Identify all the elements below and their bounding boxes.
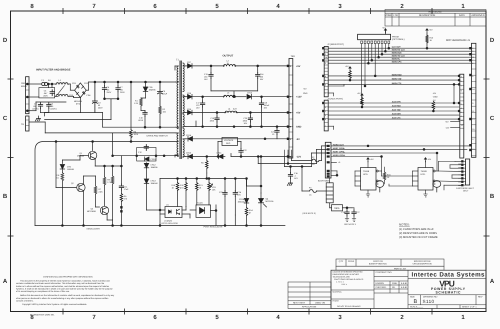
capacitor C2 [47,103,51,109]
svg-text:(3) MOUNTED ON CKT FRAME: (3) MOUNTED ON CKT FRAME [399,236,438,239]
svg-text:2.4K: 2.4K [99,191,104,194]
svg-text:F3: F3 [309,186,312,189]
svg-text:1: 1 [290,65,292,68]
power +5V U4 [424,158,426,162]
connector J5 CARTRIDGE INLET [466,159,470,185]
svg-text:NOTES:: NOTES: [399,223,410,227]
diode CR16 [186,138,188,140]
capacitor C9 electrolytic [158,82,163,106]
resistor R8 [111,176,114,184]
svg-text:+5V: +5V [296,65,301,68]
wire: aux rail to post-reg bundle [258,157,288,164]
resistor R1 [140,98,143,106]
wire: CB1 mid to filter caps [29,84,80,113]
svg-text:(250V): (250V) [33,108,39,111]
diode CR7 [186,65,188,67]
svg-text:1N4936: 1N4936 [151,166,159,169]
svg-text:CONTRACT NO.: CONTRACT NO. [376,271,393,274]
svg-text:AUX DSR: AUX DSR [392,113,402,116]
wire: +12V output rail [192,65,290,67]
svg-text:17uF: 17uF [124,188,129,191]
svg-text:1A: 1A [309,194,312,197]
svg-text:TL431: TL431 [197,202,204,205]
ground below U3 [366,194,370,197]
svg-text:5uH: 5uH [233,107,237,110]
power +5V pull-up R10 [426,29,428,33]
svg-text:PART OR: PART OR [373,260,383,263]
svg-text:1N4936: 1N4936 [149,89,157,92]
inductor L1 [56,83,68,85]
svg-text:7: 7 [461,85,463,88]
svg-text:B: B [3,193,8,200]
svg-text:L4: L4 [228,107,231,110]
svg-text:CR9: CR9 [187,108,192,111]
svg-text:GND: GND [296,126,302,129]
wire: PROM pin drops [362,44,389,103]
svg-text:100: 100 [163,111,167,114]
wire: feedback loop with rounded corner [35,82,178,226]
svg-text:CONFIDENTIAL AND PROPRIETARY I: CONFIDENTIAL AND PROPRIETARY INFORMATION [43,276,93,279]
resistor R7 [94,186,97,194]
svg-text:9: 9 [472,102,474,105]
chassis ground [35,119,40,122]
wire: -5V rail [193,138,291,140]
svg-text:MCR106: MCR106 [266,200,275,203]
zener CR6 [60,165,65,170]
svg-text:Systems. It shall not be repro: Systems. It shall not be reproduced in w… [16,287,113,290]
wire: aux port bus [328,103,459,130]
svg-text:AUX RXD: AUX RXD [392,104,402,107]
svg-text:6: 6 [153,3,157,10]
wire: bridge + output up to HV rail [80,82,175,127]
svg-text:L1: L1 [59,79,62,82]
power +5V pull-up aux [361,94,363,98]
svg-text:AUX TXD: AUX TXD [392,108,401,111]
svg-text:3: 3 [338,314,342,321]
svg-text:B: B [414,299,418,305]
svg-text:3: 3 [325,62,327,65]
svg-text:250V: 250V [120,91,125,94]
transistor Q1 [88,151,96,159]
diode CR12 [144,163,149,168]
svg-text:S110: S110 [423,299,435,304]
svg-text:5A: 5A [48,79,51,82]
resistor R6 [120,194,123,202]
svg-text:D: D [490,37,495,44]
resistor R14 [245,208,248,216]
wire: ground rail [186,121,291,127]
svg-text:-12V: -12V [296,156,301,159]
svg-text:CR8: CR8 [187,92,192,95]
svg-text:250V: 250V [98,107,103,110]
diode CR13 [144,179,149,184]
connector CB1 (AC input, upper) [26,77,29,114]
TL431 regulator U2 [196,205,211,218]
svg-text:2: 2 [325,110,327,113]
svg-text:CR4: CR4 [86,94,91,97]
capacitor C20 [248,116,252,122]
wire: Q2 collector/emitter [84,176,96,226]
wire: opto connections [160,207,190,219]
svg-text:GRLY: GRLY [463,189,469,192]
fuse F3 [302,167,326,192]
opto-isolator U1 [165,207,182,218]
svg-text:DRIVE AND SWITCH: DRIVE AND SWITCH [147,134,168,137]
svg-text:SEE NOTE 3: SEE NOTE 3 [344,223,357,226]
svg-text:2N6545: 2N6545 [77,154,85,157]
svg-text:+5V: +5V [433,92,437,95]
wire: primary return rail [103,126,176,128]
svg-text:OPTO-ISOLATOR: OPTO-ISOLATOR [162,222,179,225]
svg-text:(OPTIONAL): (OPTIONAL) [392,38,405,41]
ground below U4 [424,194,428,197]
wire: sense bundle below TB1 [285,146,327,167]
svg-text:REVISIONS: REVISIONS [428,10,441,13]
svg-text:Q2: Q2 [71,182,75,185]
svg-text:PARTS LIST: PARTS LIST [394,267,407,270]
size / dwg no row [410,296,483,309]
svg-text:TB1: TB1 [291,55,296,58]
wire: -12V feed down to post reg [160,173,245,226]
svg-text:APPROVED: APPROVED [471,14,485,17]
svg-text:DWH: DWH [392,282,398,285]
capacitor C1 [38,103,42,109]
capacitor C14 [256,73,260,79]
svg-text:75189: 75189 [421,170,428,173]
svg-text:J2 (MAIN PORT): J2 (MAIN PORT) [327,43,344,46]
svg-text:MODULATOR: MODULATOR [87,228,101,231]
svg-text:250V: 250V [43,95,48,98]
bridge rectifier CR1-CR4 MDA204 [75,83,87,98]
svg-text:C12: C12 [138,151,143,154]
capacitor C3 (HV electrolytic) [92,82,97,113]
svg-text:POST REGULATOR: POST REGULATOR [204,225,223,228]
svg-text:2.7K: 2.7K [107,181,112,184]
wire: main port bus group 2 [328,76,459,86]
connector J6 PROM (OPTIONAL) [358,34,391,39]
svg-text:CR15: CR15 [247,92,253,95]
svg-text:3: 3 [461,76,463,79]
svg-text:MAIN TXD: MAIN TXD [392,78,402,81]
svg-text:6-8-81: 6-8-81 [401,282,408,285]
svg-text:4: 4 [276,3,280,10]
svg-text:This document is the property: This document is the property of Interte… [20,280,110,283]
svg-text:1H: 1H [227,62,230,65]
regulator U5 7805 [330,203,352,211]
svg-text:LTR: LTR [393,14,398,17]
svg-text:2: 2 [400,314,404,321]
svg-text:1N5245: 1N5245 [67,168,75,171]
svg-text:8: 8 [472,47,474,50]
connector TB (AC input, lower) [26,116,29,131]
svg-text:CHECKED: CHECKED [376,286,387,289]
svg-text:IDENTIFYING NO.: IDENTIFYING NO. [369,263,388,266]
svg-text:F1: F1 [42,79,45,82]
svg-text:MAIN RXD: MAIN RXD [392,73,402,76]
svg-text:FINISH: FINISH [333,300,340,303]
transistor Q5 (U3 output buffer) [376,181,384,192]
svg-text:REG: REG [226,142,231,145]
application block [288,282,331,309]
svg-text:6: 6 [325,84,327,87]
power +5V U3 [367,158,369,162]
svg-text:10: 10 [472,53,475,56]
connector pin tick marks [26,48,476,185]
svg-text:-12V: -12V [445,126,450,129]
power +5V pull-up on bus [349,67,351,71]
svg-text:IN ORDER BY DWG NO.: IN ORDER BY DWG NO. [30,314,55,317]
svg-text:CR2: CR2 [84,82,89,85]
capacitor C24 [233,191,237,197]
signal labels group 1 [392,46,406,64]
wire: Q1 emitter net to right column [113,156,122,184]
wire: HV+ rail to transformer primary [89,81,176,83]
svg-text:C: C [3,115,8,122]
PROM pin squares [361,41,390,44]
IC U4 75189 [418,168,433,191]
right col dividers [408,278,486,280]
transformer core [180,61,181,159]
svg-text:1: 1 [461,3,465,10]
svg-text:DATE: DATE [459,14,466,17]
title block [16,259,486,317]
svg-text:(HS): (HS) [76,102,80,105]
svg-text:3: 3 [325,106,327,109]
svg-text:16V: 16V [244,122,248,125]
power +5V to PROM [384,29,386,33]
svg-text:DESCRIPTION: DESCRIPTION [419,14,436,17]
svg-text:NEXT ASSY: NEXT ASSY [293,302,306,305]
svg-text:MAIN CPS: MAIN CPS [392,61,402,64]
svg-text:F2: F2 [312,156,315,159]
IC U3 75188 [361,168,377,191]
svg-text:2: 2 [290,96,292,99]
transistor Q3 [100,206,108,214]
diode CR9 [186,112,188,114]
svg-text:A: A [490,278,495,285]
wire: TB1 pin tails [285,150,292,158]
svg-text:MAIN RL: MAIN RL [392,58,401,61]
wire: L1 to bridge [68,84,80,98]
battery/thermistor module [326,183,333,203]
svg-text:HDRD OUT: HDRD OUT [333,143,345,146]
approvals table [374,276,408,278]
svg-text:USED ON: USED ON [315,302,325,305]
wire: Q1 collector [93,133,176,156]
capacitor C17 [200,101,204,107]
svg-text:Copyright 1982 by Intertec Dat: Copyright 1982 by Intertec Data Systems.… [22,303,87,306]
wire: C6/C7 bottom bus to ground [45,99,118,120]
svg-text:C22: C22 [243,149,248,152]
svg-text:20: 20 [325,102,328,105]
svg-text:.XXX ±: .XXX ± [341,283,347,286]
svg-text:7: 7 [325,125,327,128]
line filter box with capacitor C5 [39,88,55,98]
svg-text:1N5245: 1N5245 [238,201,246,204]
svg-text:(250V): (250V) [51,108,57,111]
svg-text:8: 8 [30,3,34,10]
svg-text:CARTRIDGE INLET: CARTRIDGE INLET [456,187,475,190]
capacitor C27 [352,210,356,216]
svg-text:of its record keeping or compl: of its record keeping or compliance of t… [16,290,70,293]
svg-text:CLK OUT: CLK OUT [392,46,402,49]
wire: U4 to cartridge [439,162,462,191]
svg-text:consent of Intertec.: consent of Intertec. [16,299,34,302]
svg-text:75188: 75188 [363,170,370,173]
resistor R3 [130,130,133,138]
svg-text:TOLERANCES ARE:: TOLERANCES ARE: [333,275,351,278]
signal labels HDRD [333,143,346,157]
wire: modulator bottom rail [35,225,285,227]
svg-text:(SEE NOTE 3): (SEE NOTE 3) [303,212,316,215]
svg-text:VOLTAGE: VOLTAGE [224,139,234,142]
capacitor C16 [288,173,292,179]
svg-text:WL: WL [392,286,396,289]
svg-text:REV: REV [478,296,483,299]
svg-text:C27: C27 [356,211,361,214]
svg-text:D: D [3,37,8,44]
wire: sense bus to right edge [331,146,472,157]
svg-text:HCD: HCD [363,173,368,176]
svg-text:1.2K: 1.2K [134,102,139,105]
svg-text:16V: 16V [260,78,264,81]
diode CR10 [188,154,193,159]
svg-text:HDRT OPNL: HDRT OPNL [333,150,346,153]
svg-text:4: 4 [290,126,292,129]
SCR Q4 MCR106 [259,193,267,226]
svg-text:SHEET 1 OF 1: SHEET 1 OF 1 [462,306,477,309]
svg-text:+5V: +5V [429,29,433,32]
svg-text:270: 270 [124,198,128,201]
wire: vertical from feedback node [56,142,76,188]
svg-text:ZONE: ZONE [385,14,392,17]
wire: bridge - output down [79,98,81,113]
svg-text:SCHEMATIC: SCHEMATIC [436,290,462,294]
wire: stub main port pin 7 [328,93,333,96]
diode CR8 [186,96,188,98]
svg-text:MOTHERBOARD J1: MOTHERBOARD J1 [446,39,470,42]
svg-text:HDRT OPNL: HDRT OPNL [333,147,346,150]
wire: fuse to L1 [48,83,56,85]
svg-text:APPLICATION: APPLICATION [302,306,317,309]
svg-text:MAIN TO CLK: MAIN TO CLK [392,55,406,58]
svg-text:J3 (AUX PORT): J3 (AUX PORT) [327,97,343,100]
svg-text:11: 11 [472,56,475,59]
fuse F2 [312,159,319,162]
svg-text:1KV: 1KV [294,177,298,180]
wire: +5V rail [192,112,290,114]
svg-text:1: 1 [461,314,465,321]
svg-text:+5V: +5V [428,158,432,161]
contract / approvals text [376,271,409,289]
U3 pin stubs [355,157,382,195]
wire: lower AC line [29,122,113,133]
svg-text:+5: +5 [338,161,341,164]
connector J4 (mid) [460,74,464,158]
zener CR14 [244,199,249,204]
svg-text:100K: 100K [134,133,139,136]
capacitor C13 [209,73,213,79]
svg-text:(2) RESISTORS ARE IN OHMS: (2) RESISTORS ARE IN OHMS [399,232,437,235]
svg-text:AUX CTS: AUX CTS [392,117,401,120]
connector CB1 terminals [26,83,29,86]
svg-text:DO NOT SCALE DRAWING: DO NOT SCALE DRAWING [337,305,361,308]
svg-text:+5V: +5V [345,65,349,68]
svg-text:3: 3 [290,112,292,115]
inductor L3 [224,95,236,97]
svg-text:T1: T1 [176,59,179,62]
capacitor C7 [116,86,120,92]
capacitor C19 [215,116,219,122]
capacitor C23 [223,191,227,197]
wire: U3 to U4 links [382,171,413,186]
svg-text:HCD: HCD [421,173,426,176]
svg-text:47uF: 47uF [163,92,168,95]
svg-text:CR16: CR16 [186,134,192,137]
svg-text:CR11: CR11 [217,152,223,155]
svg-text:+12V: +12V [296,96,302,99]
inductor L1 second winding [56,95,68,97]
svg-text:MAIN RX CLK: MAIN RX CLK [392,49,406,52]
svg-text:+5V: +5V [357,92,361,95]
svg-text:7: 7 [472,59,474,62]
svg-text:4: 4 [472,62,474,65]
svg-text:22: 22 [325,47,328,50]
svg-text:MATERIAL: MATERIAL [333,291,342,294]
svg-text:CR1: CR1 [72,82,77,85]
svg-text:OUTPUT: OUTPUT [223,55,234,58]
svg-text:INPUT FILTER AND BRIDGE: INPUT FILTER AND BRIDGE [36,69,71,72]
svg-text:PROM: PROM [392,35,399,38]
fuse F1 [42,82,48,85]
svg-text:GND: GND [303,92,308,95]
wire: HDRD lower stubs [330,162,337,183]
svg-text:DRAWN: DRAWN [376,282,385,285]
svg-text:+5V: +5V [296,112,301,115]
inductor L4 [225,111,237,113]
capacitor C11 [119,184,123,190]
svg-text:R5: R5 [201,162,204,165]
wire: link group2 to aux [453,84,455,103]
svg-text:5: 5 [290,138,292,141]
svg-text:OR DESCRIPTION: OR DESCRIPTION [413,263,432,266]
svg-text:MPS3638: MPS3638 [87,210,97,213]
svg-text:15: 15 [472,128,475,131]
svg-text:+5V: +5V [370,158,374,161]
transistor Q6 (U4 output buffer) [433,181,441,192]
snubber module CR15/C12 [137,148,156,162]
wire: TL431 connections [190,205,216,226]
svg-text:QTY: QTY [339,260,344,263]
U4 pin stubs [413,153,439,194]
diode CR15 [247,94,252,99]
svg-text:2: 2 [461,103,463,106]
svg-text:-5V: -5V [296,138,300,141]
svg-text:CR15: CR15 [151,158,157,161]
wire: Q3 emitter to rail [107,214,113,226]
capacitor C6 [102,86,106,92]
svg-text:3: 3 [338,3,342,10]
svg-text:CR10: CR10 [186,152,192,155]
svg-text:CR7: CR7 [187,61,192,64]
wire: C13/C14 bottom bus [211,90,258,92]
resistor R13 [196,183,199,191]
svg-text:Neither this document nor the: Neither this document nor the informatio… [20,294,115,297]
capacitor C22 [239,149,243,155]
svg-text:A: A [3,278,8,285]
svg-text:4: 4 [276,314,280,321]
ground symbols below caps [345,219,356,222]
